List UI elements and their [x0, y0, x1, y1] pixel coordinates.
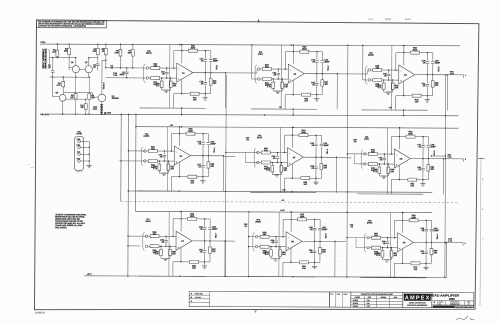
- bus row 2 ground rail: [128, 191, 432, 192]
- border zone tick top center: [258, 20, 260, 22]
- resistor R29: [370, 79, 372, 81]
- wire front-end out hi: [106, 67, 146, 69]
- connector bracket P5: [254, 148, 256, 167]
- svg-text:150K: 150K: [190, 46, 195, 49]
- svg-text:25MF: 25MF: [324, 144, 330, 147]
- wire output drop 9: [445, 242, 447, 277]
- resistor R1 bias: [56, 44, 58, 50]
- wire cell bottom rail 9: [360, 277, 426, 279]
- resistor R22: [260, 68, 262, 70]
- resistor R69: [431, 242, 433, 248]
- svg-text:2: 2: [466, 305, 467, 308]
- ground bias 5: [274, 174, 279, 176]
- faint sheet edge line right: [480, 157, 481, 306]
- svg-text:25MF: 25MF: [213, 59, 219, 62]
- wire Q2 collector node: [89, 57, 98, 59]
- svg-text:ARE 2N4250.: ARE 2N4250.: [55, 226, 67, 229]
- svg-text:(BRN): (BRN): [367, 221, 373, 224]
- wire feedback left 2: [284, 52, 286, 69]
- svg-text:+13: +13: [170, 124, 173, 127]
- wire bias feed 4: [166, 127, 168, 161]
- svg-text:25MF: 25MF: [212, 228, 218, 231]
- wire output drop 3: [447, 75, 449, 110]
- svg-text:25MF: 25MF: [120, 73, 126, 76]
- wire feed col3 top: [362, 45, 364, 79]
- wire row3 col2 output to edge: [335, 241, 346, 243]
- wire supply drop 9: [402, 213, 404, 233]
- resistor R51: [427, 159, 429, 165]
- op-amp U9: [397, 233, 413, 252]
- wire feedback left 1: [173, 51, 175, 68]
- resistor R53: [148, 245, 150, 247]
- wire supply drop 3: [403, 46, 405, 65]
- wire output 7: [192, 240, 225, 242]
- svg-text:150K: 150K: [302, 47, 307, 50]
- resistor R24 bias: [272, 79, 274, 82]
- wire row2 col3 input stub: [347, 153, 364, 155]
- wire cell bottom rail 5: [250, 191, 316, 193]
- op-amp U8: [286, 232, 302, 251]
- wire output drop 7: [224, 241, 226, 276]
- bus -20V bottom rail: [84, 276, 444, 278]
- svg-text:25MF: 25MF: [211, 142, 217, 145]
- svg-text:1-0-1: 1-0-1: [368, 18, 374, 21]
- resistor R25 bias: [281, 79, 283, 82]
- svg-text:4: 4: [464, 305, 465, 308]
- wire bottom drop 6: [390, 180, 392, 194]
- wire output 6: [410, 158, 443, 160]
- wire row2 col1 output to edge: [223, 155, 235, 157]
- ground bias 1: [164, 89, 169, 91]
- svg-text:5.6K: 5.6K: [115, 51, 120, 54]
- amplifier channel 3 input terminal: [368, 69, 370, 71]
- wire row3 col1 output to edge: [225, 240, 235, 242]
- wire cell bottom rail 6: [357, 193, 423, 195]
- resistor R35: [146, 160, 148, 162]
- capacitor C29 feedback: [426, 53, 428, 61]
- resistor R39: [207, 156, 209, 162]
- svg-text:(YEL): (YEL): [258, 53, 263, 56]
- wire TB1 pin 3 to bus: [80, 153, 89, 155]
- svg-text:PART: PART: [344, 294, 348, 296]
- connector TB1 pin 1: [78, 140, 81, 143]
- capacitor C66: [431, 220, 433, 228]
- svg-text:+13V: +13V: [280, 209, 285, 212]
- wire input hi: [49, 57, 75, 59]
- wire front-end out lo: [106, 77, 146, 79]
- wire feedback left 8: [282, 219, 284, 236]
- svg-text:25MF: 25MF: [434, 229, 440, 232]
- op-amp U3: [399, 65, 415, 84]
- resistor R33: [432, 75, 434, 81]
- wire supply drop 5: [291, 127, 293, 147]
- wire Q1-Q2 emitters: [72, 76, 89, 78]
- capacitor C52 bias: [165, 236, 167, 239]
- svg-text:SM5T: SM5T: [385, 18, 392, 21]
- wire output drop 6: [442, 159, 444, 194]
- resistor R3: [62, 77, 64, 81]
- resistor R66 bias: [381, 248, 383, 251]
- ground bias 3: [386, 91, 391, 93]
- wire bias feed 1: [169, 45, 171, 78]
- resistor R34: [146, 150, 148, 152]
- capacitor C23 feedback: [316, 52, 318, 60]
- wire feedback left 9: [394, 220, 396, 237]
- resistor R34 bottom: [403, 81, 405, 95]
- capacitor C43: [315, 157, 317, 166]
- svg-text:150K: 150K: [190, 215, 195, 218]
- svg-text:TB1-7: TB1-7: [215, 233, 218, 238]
- svg-text:390: 390: [81, 106, 84, 109]
- wire TB1 pin 2 to bus: [80, 146, 89, 148]
- svg-text:.05: .05: [246, 138, 249, 141]
- transistor Q1: [72, 66, 79, 73]
- resistor R47: [366, 163, 368, 165]
- wire row3 col2 input stub: [249, 236, 256, 238]
- capacitor C36: [207, 134, 209, 142]
- resistor R31 bias: [392, 80, 394, 83]
- capacitor C41 feedback: [315, 135, 317, 143]
- amplifier channel 9 input terminal: [367, 236, 369, 238]
- svg-text:25MF: 25MF: [324, 60, 330, 63]
- svg-text:7: 7: [471, 306, 472, 309]
- resistor R43 bias: [280, 163, 282, 166]
- ground output 8: [314, 262, 316, 266]
- capacitor C46 bias: [383, 154, 385, 157]
- connector bracket P2: [255, 65, 257, 84]
- wire chain row1 col1-col2: [226, 72, 257, 74]
- wire output 8: [302, 240, 335, 242]
- op-amp U4: [174, 146, 190, 165]
- wire bias ground 7: [161, 257, 170, 259]
- ground bias 8: [273, 258, 278, 260]
- resistor R8 Q1 emitter: [75, 77, 77, 93]
- wire bias ground 9: [382, 259, 391, 261]
- capacitor C3: [126, 68, 128, 71]
- svg-text:4.7K: 4.7K: [448, 240, 453, 243]
- svg-text:1: 1: [469, 305, 470, 308]
- wire bottom drop 2: [284, 95, 286, 109]
- connector TB1 pin 4: [78, 160, 81, 163]
- amplifier channel 2 input terminal: [258, 68, 260, 70]
- wire output 5: [303, 156, 336, 158]
- connector TB1 pin 3: [78, 153, 81, 156]
- resistor R37 bias: [167, 161, 169, 164]
- wire output drop 2: [336, 74, 338, 109]
- wire bias ground 6: [379, 175, 388, 177]
- wire bottom drop 1: [173, 94, 175, 108]
- capacitor C25: [316, 74, 318, 83]
- svg-text:+13: +13: [389, 106, 392, 109]
- resistor R64: [369, 237, 371, 239]
- capacitor C42: [320, 135, 322, 143]
- resistor R6: [119, 44, 121, 49]
- wire bottom drop 7: [172, 262, 174, 276]
- wire row3 col1 input stub lo: [128, 245, 140, 247]
- transistor Q2: [85, 66, 92, 73]
- capacitor C40 bias: [276, 153, 278, 156]
- svg-text:4.7K: 4.7K: [376, 254, 381, 257]
- wire output drop 8: [334, 242, 336, 277]
- svg-text:4.7K: 4.7K: [447, 156, 452, 159]
- wire row3 col3 input stub: [347, 237, 367, 239]
- resistor R19 bias: [170, 78, 172, 81]
- wire TB1 pin 4 to bus: [80, 160, 89, 162]
- svg-text:4.7K: 4.7K: [377, 86, 382, 89]
- svg-text:TB1-9: TB1-9: [436, 234, 439, 239]
- wire left rail C: [135, 114, 137, 211]
- svg-text:25MF: 25MF: [431, 145, 437, 148]
- wire bias feed 9: [390, 213, 392, 248]
- svg-text:4.7K: 4.7K: [155, 252, 160, 255]
- amplifier channel 1 input terminal: [146, 67, 148, 69]
- wire cell bottom rail 2: [251, 108, 317, 110]
- wire bottom drop 8: [282, 262, 284, 276]
- resistor R61 bias: [279, 247, 281, 250]
- svg-text:TB1-6: TB1-6: [433, 151, 436, 156]
- wire output 9: [414, 241, 447, 243]
- amplifier channel 4 input terminal: [144, 150, 146, 152]
- wire left rail B: [127, 114, 130, 276]
- capacitor C16 bias: [166, 68, 168, 71]
- wire bias feed 5: [279, 127, 281, 162]
- wire row1 col3 output to edge: [448, 74, 464, 76]
- wire supply drop 8: [290, 212, 292, 232]
- junction dots buses: [181, 126, 182, 127]
- svg-text:4.7K: 4.7K: [56, 84, 61, 87]
- feedback resistor R44: [285, 134, 299, 136]
- connector bracket P7: [143, 232, 145, 251]
- svg-text:150K: 150K: [188, 130, 193, 133]
- amplifier channel 7 input terminal: [145, 235, 147, 237]
- connector bracket P9: [364, 234, 366, 253]
- resistor R60 bias: [270, 247, 272, 250]
- wire cell bottom rail 8: [249, 276, 315, 278]
- resistor R36 bias: [158, 161, 160, 164]
- capacitor C2: [97, 58, 99, 63]
- resistor R9 Q2 emitter: [88, 77, 90, 93]
- feedback resistor R38: [172, 133, 186, 135]
- wire bias feed 6: [386, 128, 388, 164]
- svg-text:4.7K: 4.7K: [373, 170, 378, 173]
- resistor R52: [148, 235, 150, 237]
- general notes box: [36, 20, 106, 28]
- resistor R54 bias: [160, 246, 162, 249]
- wire feedback left 3: [395, 53, 397, 70]
- resistor R46 bottom: [291, 164, 293, 178]
- wire bias ground 2: [273, 90, 282, 92]
- svg-text:HEAD AMPLIFIER: HEAD AMPLIFIER: [429, 293, 459, 297]
- connector TB1 pin 2: [78, 146, 81, 149]
- wire output drop 5: [335, 157, 337, 192]
- svg-text:1: 1: [465, 74, 466, 77]
- svg-text:TB1-8: TB1-8: [325, 233, 328, 238]
- wire bottom drop 9: [393, 263, 395, 277]
- svg-text:-VRL BUS: -VRL BUS: [40, 113, 50, 116]
- wire row3 col1 input stub hi: [128, 235, 146, 237]
- svg-text:4.7K: 4.7K: [155, 84, 160, 87]
- diode CR4: [100, 112, 102, 114]
- wire row1 col2 bottom to bus: [292, 109, 294, 115]
- capacitor C65 feedback: [425, 220, 427, 228]
- resistor R48 bias: [378, 164, 380, 167]
- wire supply drop 1: [181, 45, 183, 63]
- svg-text:7: 7: [461, 305, 462, 308]
- resistor R40: [259, 151, 261, 153]
- wire row3 col3 output to edge: [447, 241, 463, 243]
- svg-text:SCALE: SCALE: [439, 301, 444, 303]
- wire TB1 common: [88, 142, 90, 166]
- resistor R67 bias: [390, 248, 392, 251]
- svg-text:(GRN): (GRN): [144, 135, 150, 138]
- op-amp U6: [394, 149, 410, 168]
- svg-text:4.7K: 4.7K: [450, 72, 455, 75]
- capacitor C49: [422, 159, 424, 168]
- ground output 1: [204, 94, 206, 98]
- resistor R11 Q3 load: [66, 98, 86, 100]
- svg-text:+: +: [28, 163, 30, 167]
- resistor R63: [319, 241, 321, 247]
- connector bracket P8: [253, 233, 255, 252]
- catalog number boxes: [433, 306, 455, 308]
- resistor R52 bottom: [398, 165, 400, 179]
- wire TB1 pin 1 to bus: [80, 140, 89, 142]
- resistor R42 bias: [271, 163, 273, 166]
- svg-text:150K: 150K: [412, 48, 417, 51]
- svg-text:.05: .05: [354, 140, 357, 143]
- diode CR3: [100, 109, 102, 111]
- capacitor C19: [204, 73, 206, 82]
- wire output drop 1: [225, 73, 227, 108]
- ground TB1: [87, 164, 92, 166]
- svg-text:-13: -13: [281, 199, 284, 202]
- ground bias 7: [163, 257, 168, 259]
- bus +13V row 3 rail: [136, 211, 433, 212]
- svg-text:TB1-5: TB1-5: [326, 149, 329, 154]
- svg-text:SELECT: SELECT: [102, 81, 105, 89]
- capacitor C48: [427, 137, 429, 145]
- resistor R59: [258, 246, 260, 248]
- wire output 2: [304, 73, 337, 75]
- amplifier channel 8 input terminal: [255, 235, 257, 237]
- svg-text:.05: .05: [244, 225, 247, 228]
- svg-text:INPUT ASSEMBLY: INPUT ASSEMBLY: [42, 48, 45, 68]
- capacitor C54: [209, 219, 211, 227]
- wire supply drop 4: [178, 127, 180, 146]
- svg-text:(ORN): (ORN): [368, 54, 374, 57]
- svg-text:4.7K: 4.7K: [267, 85, 272, 88]
- ground output 3: [426, 96, 428, 100]
- resistor R5: [105, 44, 107, 48]
- ground bias 2: [275, 90, 280, 92]
- resistor R28: [370, 69, 372, 71]
- resistor R23: [260, 78, 262, 80]
- diode CR5 on -VRL rail: [104, 112, 106, 114]
- connector TB1 shell: [75, 136, 84, 170]
- ground bias 4: [161, 172, 166, 174]
- resistor R46: [366, 153, 368, 155]
- feedback resistor R20: [174, 50, 188, 52]
- feedback resistor R32: [396, 52, 410, 54]
- capacitor C59 feedback: [314, 219, 316, 227]
- wire output 1: [193, 72, 226, 74]
- bus +13V row 2 rail: [136, 127, 459, 128]
- capacitor C35 feedback: [202, 134, 204, 142]
- connector bracket P6: [361, 150, 363, 169]
- capacitor C28 bias: [388, 70, 390, 73]
- wire row1 col3 bottom to bus: [403, 110, 405, 115]
- wire feed col2 top: [251, 45, 253, 79]
- logo AMPEX: [403, 292, 432, 307]
- feedback resistor R62: [283, 218, 297, 220]
- connector bracket P1: [144, 64, 146, 83]
- capacitor C22 bias: [277, 69, 279, 72]
- wire bias feed 2: [280, 45, 282, 79]
- wire col3 output riser: [444, 75, 447, 278]
- wire supply drop 7: [180, 212, 182, 232]
- op-amp U5: [287, 148, 303, 167]
- wire feedback left 4: [170, 134, 172, 151]
- svg-text:CONN: CONN: [76, 132, 82, 135]
- wire feedback left 6: [390, 137, 392, 154]
- svg-text:COPYRIGHT 1970 BY AMPEX CORPOR: COPYRIGHT 1970 BY AMPEX CORPORATION . LI…: [38, 24, 87, 27]
- connector bracket P3: [366, 66, 368, 85]
- wire bias ground 8: [271, 258, 280, 260]
- revision block: [189, 291, 329, 307]
- op-amp U7: [176, 231, 192, 250]
- svg-text:QTY: QTY: [330, 294, 333, 296]
- svg-text:4.7K: 4.7K: [266, 169, 271, 172]
- op-amp U1: [177, 63, 193, 82]
- svg-text:150K: 150K: [411, 216, 416, 219]
- resistor R57: [209, 241, 211, 247]
- wire cell bottom rail 4: [137, 190, 203, 192]
- ground output 2: [316, 95, 318, 99]
- ground output 7: [204, 262, 206, 266]
- svg-text:TB1-1: TB1-1: [215, 65, 218, 70]
- svg-text:(RED): (RED): [255, 220, 261, 223]
- svg-text:CR5: CR5: [107, 112, 111, 115]
- wire output 4: [190, 155, 223, 157]
- svg-text:3: 3: [465, 242, 466, 245]
- wire chain row1 col2-col3: [337, 73, 367, 75]
- drawing border frame: [35, 20, 479, 310]
- resistor R64 bottom: [290, 248, 292, 262]
- wire row2 col2 output to edge: [336, 157, 351, 159]
- wire cell bottom rail 1: [140, 107, 206, 109]
- wire row1 col1 bottom to bus: [181, 108, 183, 114]
- wire bias ground 1: [162, 89, 171, 91]
- amplifier channel 6 input terminal: [364, 153, 366, 155]
- capacitor C17 feedback: [204, 51, 206, 59]
- diode CR2: [100, 107, 102, 109]
- capacitor C55: [204, 241, 206, 250]
- resistor R17: [148, 77, 150, 79]
- svg-text:AMPEX: AMPEX: [405, 295, 430, 301]
- connector bracket P4: [141, 147, 143, 166]
- ground output 6: [422, 180, 424, 184]
- wire bias ground 4: [159, 172, 168, 174]
- resistor R7: [132, 44, 134, 49]
- wire inter-column rail 2: [347, 46, 348, 277]
- ground output 4: [202, 177, 204, 181]
- wire feedback left 7: [172, 219, 174, 236]
- capacitor C24: [321, 52, 323, 60]
- svg-text:TB1-4: TB1-4: [213, 148, 216, 153]
- wire bottom drop 5: [283, 178, 285, 192]
- wire left rail A: [120, 114, 122, 201]
- resistor R21: [210, 73, 212, 79]
